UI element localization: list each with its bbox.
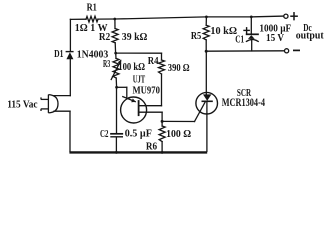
svg-text:39 kΩ: 39 kΩ [122, 31, 148, 43]
svg-text:R1: R1 [87, 1, 97, 13]
svg-text:C1: C1 [235, 34, 244, 46]
svg-text:MU970: MU970 [133, 84, 161, 96]
svg-text:R5: R5 [191, 30, 202, 42]
svg-text:R3: R3 [103, 59, 110, 70]
svg-text:390 Ω: 390 Ω [168, 62, 190, 74]
svg-text:100 kΩ: 100 kΩ [118, 61, 145, 73]
svg-text:R6: R6 [146, 140, 158, 152]
svg-text:MCR1304-4: MCR1304-4 [222, 97, 265, 109]
svg-text:C2: C2 [100, 128, 109, 140]
svg-text:R4: R4 [148, 55, 159, 67]
svg-text:15 V: 15 V [266, 32, 284, 44]
svg-text:115 Vac: 115 Vac [7, 99, 37, 111]
svg-text:10 kΩ: 10 kΩ [210, 25, 237, 37]
svg-text:0.5 µF: 0.5 µF [125, 128, 152, 140]
svg-text:D1: D1 [54, 48, 63, 60]
svg-text:R2: R2 [99, 31, 111, 43]
svg-text:100 Ω: 100 Ω [166, 128, 191, 140]
svg-text:output: output [296, 30, 324, 42]
